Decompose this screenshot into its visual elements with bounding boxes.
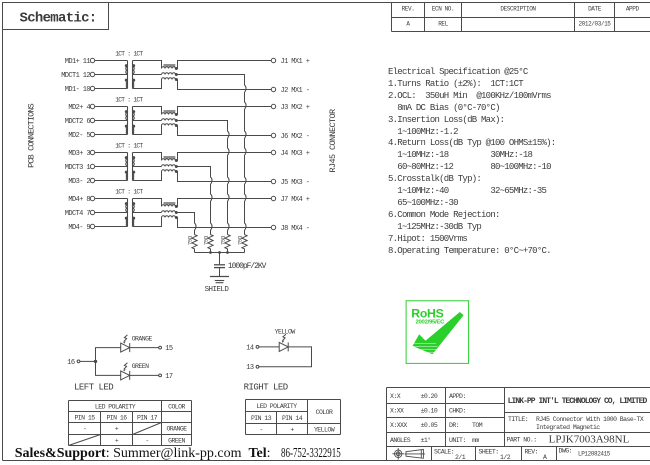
svg-text:MDCT3 1: MDCT3 1 — [65, 164, 91, 172]
svg-text:A: A — [406, 21, 410, 28]
svg-text:PIN 16: PIN 16 — [106, 415, 127, 422]
svg-text:RJ45 Connector With 1000 Base-: RJ45 Connector With 1000 Base-TX — [536, 416, 644, 423]
svg-text:±1°: ±1° — [421, 436, 431, 444]
svg-text:2002/95/EC: 2002/95/EC — [416, 320, 446, 326]
svg-text:15: 15 — [165, 345, 173, 353]
svg-text:1000pF/2KV: 1000pF/2KV — [228, 262, 267, 271]
svg-text:PART NO.:: PART NO.: — [507, 437, 537, 444]
wire T3 secondary bottom to choke L3 — [133, 172, 162, 181]
wire junction to green LED — [96, 361, 121, 375]
title box Schematic — [3, 3, 109, 30]
pin 17 — [159, 373, 173, 381]
svg-text:A: A — [543, 454, 547, 461]
svg-text:1/2: 1/2 — [500, 454, 511, 461]
node cap junction — [218, 251, 221, 254]
svg-text:YELLOW: YELLOW — [275, 328, 296, 335]
svg-text:PIN 17: PIN 17 — [137, 415, 158, 422]
LED D1 ORANGE — [121, 335, 153, 352]
svg-text:MD4- 9: MD4- 9 — [68, 224, 90, 232]
wire T3 secondary top to choke L3 — [133, 153, 162, 161]
svg-text:2012/03/15: 2012/03/15 — [578, 21, 611, 28]
svg-text:COLOR: COLOR — [316, 409, 333, 416]
svg-text:ANGLES: ANGLES — [390, 437, 411, 444]
wire T3 secondary center tap to choke L3 — [133, 166, 162, 168]
resistor R1 75 ohm — [236, 235, 247, 253]
svg-text:GREEN: GREEN — [168, 438, 185, 445]
svg-text:SCALE:: SCALE: — [434, 449, 454, 456]
svg-text:±0.05: ±0.05 — [421, 422, 438, 429]
svg-text:75Ω: 75Ω — [186, 235, 193, 245]
wire choke L2 to J6 — [176, 126, 271, 136]
revision table — [392, 3, 650, 32]
wire T1 secondary center tap to choke L1 — [133, 74, 162, 76]
svg-text:J8 MX4 -: J8 MX4 - — [281, 225, 310, 233]
svg-text:ECN NO.: ECN NO. — [432, 6, 454, 13]
wire choke L4 to J7 — [176, 199, 271, 207]
svg-text:MD1- 10: MD1- 10 — [65, 86, 91, 94]
svg-text:J3 MX2 +: J3 MX2 + — [281, 104, 310, 112]
capacitor C1 1000pF/2KV — [214, 253, 267, 277]
wire choke L1 to J2 — [176, 80, 271, 90]
svg-text:MD2+ 4: MD2+ 4 — [68, 104, 90, 112]
svg-text:PIN 14: PIN 14 — [282, 415, 303, 422]
ground SHIELD — [205, 277, 230, 295]
svg-text:COLOR: COLOR — [168, 404, 185, 411]
svg-text:+: + — [115, 438, 119, 445]
wire T4 secondary top to choke L4 — [133, 199, 162, 207]
third-angle projection symbol — [392, 448, 425, 460]
pin 12 (MDCT1) — [61, 72, 95, 80]
pin 3 (MD3+) — [68, 150, 94, 158]
svg-text:-: - — [145, 438, 148, 445]
svg-text:PIN 15: PIN 15 — [74, 415, 95, 422]
svg-text:14: 14 — [246, 344, 254, 352]
pin 14 (right LED anode) — [246, 344, 259, 352]
wire T1 secondary bottom to choke L1 — [133, 80, 162, 89]
wire MD1+ to T1 — [95, 60, 128, 62]
pin 13 — [246, 364, 259, 372]
wire common rail (resistor commons) — [195, 251, 245, 254]
svg-text:LP12082415: LP12082415 — [578, 451, 611, 458]
svg-text:+: + — [115, 426, 119, 433]
svg-text:75Ω: 75Ω — [202, 235, 209, 245]
node LED junction — [94, 360, 97, 363]
RoHS logo — [406, 301, 469, 364]
wire T1 secondary top to choke L1 — [133, 61, 162, 69]
transformer T2 (1CT:1CT) — [125, 107, 135, 135]
left LED polarity table — [69, 401, 192, 446]
common-mode choke L4 — [162, 202, 178, 219]
wire MD2- to T2 — [95, 134, 128, 136]
svg-text:2/1: 2/1 — [455, 454, 466, 461]
pin 16 (left LED common) — [67, 359, 80, 367]
svg-text:J7 MX4 +: J7 MX4 + — [281, 196, 310, 204]
pin 1 (MDCT3) — [65, 164, 95, 172]
svg-text:SHEET:: SHEET: — [479, 449, 499, 456]
svg-text:LEFT LED: LEFT LED — [74, 383, 113, 393]
wire MDCT2 to T2 center tap — [95, 120, 128, 122]
svg-text:1CT : 1CT: 1CT : 1CT — [115, 189, 143, 196]
svg-text:MD4+ 8: MD4+ 8 — [68, 196, 90, 204]
wire pin16 to junction — [80, 360, 96, 362]
svg-text:75Ω: 75Ω — [236, 235, 243, 245]
wire T2 secondary center tap to choke L2 — [133, 120, 162, 122]
pin 9 (MD4-) — [68, 224, 94, 232]
svg-text:17: 17 — [165, 373, 173, 381]
wire choke L2 center-tap bus to R2 (with crossover hops) — [176, 121, 229, 235]
svg-text:±0.10: ±0.10 — [421, 408, 438, 415]
svg-text:13: 13 — [246, 364, 254, 372]
svg-text:RJ45 CONNECTOR: RJ45 CONNECTOR — [328, 109, 338, 173]
pin 11 (MD1+) — [65, 58, 95, 66]
svg-text:TITLE:: TITLE: — [508, 416, 528, 423]
wire MD3- to T3 — [95, 180, 128, 182]
svg-text:DWG:: DWG: — [559, 448, 572, 455]
pin J7 (MX4 +) — [271, 196, 309, 204]
svg-text:Integrated Magnetic: Integrated Magnetic — [536, 424, 600, 431]
wire LED D3 to pin 13 — [259, 347, 312, 367]
pin 4 (MD2+) — [68, 104, 94, 112]
svg-text:APPD: APPD — [626, 6, 640, 13]
right LED polarity table — [246, 400, 341, 435]
svg-text:X:XX: X:XX — [390, 408, 404, 415]
wire T4 secondary bottom to choke L4 — [133, 218, 162, 227]
wire MD4+ to T4 — [95, 198, 128, 200]
pin J5 (MX3 -) — [271, 179, 309, 187]
svg-text:J6 MX2 -: J6 MX2 - — [281, 133, 310, 141]
wire pin14 to yellow LED — [259, 346, 279, 348]
svg-text:UNIT:: UNIT: — [449, 437, 466, 444]
wire choke L4 center-tap bus to R4 (with crossover hops) — [176, 213, 196, 235]
svg-text:PCB CONNECTIONS: PCB CONNECTIONS — [27, 103, 37, 168]
wire MDCT4 to T4 center tap — [95, 212, 128, 214]
svg-text:J5 MX3 -: J5 MX3 - — [281, 179, 310, 187]
svg-text:ORANGE: ORANGE — [166, 426, 187, 433]
svg-text:ORANGE: ORANGE — [132, 335, 153, 342]
svg-text:REV:: REV: — [525, 449, 538, 456]
svg-text:MDCT2 6: MDCT2 6 — [65, 118, 91, 126]
svg-text:REV.: REV. — [402, 6, 415, 13]
resistor R4 75 ohm — [186, 235, 197, 253]
wire T2 secondary top to choke L2 — [133, 107, 162, 115]
svg-text:MD2- 5: MD2- 5 — [68, 132, 90, 140]
svg-text:CHKD:: CHKD: — [449, 408, 466, 415]
svg-text:J4 MX3 +: J4 MX3 + — [281, 150, 310, 158]
resistor R3 75 ohm — [202, 235, 213, 253]
wire T4 secondary center tap to choke L4 — [133, 212, 162, 214]
pin 5 (MD2-) — [68, 132, 94, 140]
svg-text:Schematic:: Schematic: — [20, 11, 97, 27]
svg-text:MD3- 2: MD3- 2 — [68, 178, 90, 186]
svg-text:REL: REL — [438, 21, 448, 28]
sales contact line — [15, 446, 375, 462]
svg-text:-: - — [259, 427, 262, 434]
wire MDCT1 to T1 center tap — [95, 74, 128, 76]
svg-text:J2 MX1 -: J2 MX1 - — [281, 87, 310, 95]
svg-text:+: + — [290, 427, 294, 434]
wire MD2+ to T2 — [95, 106, 128, 108]
svg-text:75Ω: 75Ω — [219, 235, 226, 245]
svg-text:1CT : 1CT: 1CT : 1CT — [115, 51, 143, 58]
resistor R2 75 ohm — [219, 235, 230, 253]
wire MD4- to T4 — [95, 226, 128, 228]
wire MDCT3 to T3 center tap — [95, 166, 128, 168]
svg-text:LED POLARITY: LED POLARITY — [95, 404, 136, 411]
svg-text:LPJK7003A98NL: LPJK7003A98NL — [549, 434, 630, 446]
svg-text:DATE: DATE — [588, 6, 602, 13]
transformer T4 (1CT:1CT) — [125, 199, 135, 227]
svg-text:16: 16 — [67, 359, 75, 367]
wire LED D1 to pin 15 — [130, 347, 159, 349]
svg-text:-: - — [83, 426, 86, 433]
wire MD1- to T1 — [95, 88, 128, 90]
common-mode choke L3 — [162, 156, 178, 173]
title block — [387, 388, 650, 462]
pin J2 (MX1 -) — [271, 87, 309, 95]
svg-text:APPD:: APPD: — [449, 393, 466, 400]
svg-text:1CT : 1CT: 1CT : 1CT — [115, 97, 143, 104]
svg-text:LED POLARITY: LED POLARITY — [256, 403, 297, 410]
svg-text:RIGHT LED: RIGHT LED — [244, 383, 288, 393]
wire choke L3 to J4 — [176, 153, 271, 161]
svg-text:RoHS: RoHS — [411, 307, 443, 321]
svg-text:MD3+ 3: MD3+ 3 — [68, 150, 90, 158]
pin J6 (MX2 -) — [271, 133, 309, 141]
pin 10 (MD1-) — [65, 86, 95, 94]
LED D2 GREEN — [121, 363, 149, 380]
wire junction to orange LED — [96, 348, 121, 362]
wire LED D2 to pin 17 — [130, 374, 159, 376]
LED D3 YELLOW — [275, 328, 296, 351]
svg-text:TOM: TOM — [472, 422, 483, 429]
svg-text:GREEN: GREEN — [132, 363, 149, 370]
wire choke L3 center-tap bus to R3 (with crossover hops) — [176, 167, 212, 235]
pin J4 (MX3 +) — [271, 150, 309, 158]
pin J1 (MX1 +) — [271, 58, 309, 66]
wire choke L1 to J1 — [176, 61, 271, 69]
common-mode choke L2 — [162, 110, 178, 127]
svg-text:MD1+ 11: MD1+ 11 — [65, 58, 91, 66]
svg-text:±0.20: ±0.20 — [421, 393, 438, 400]
wire MD3+ to T3 — [95, 152, 128, 154]
electrical specification text — [388, 67, 555, 258]
pin 8 (MD4+) — [68, 196, 94, 204]
pin 6 (MDCT2) — [65, 118, 95, 126]
svg-text:J1 MX1 +: J1 MX1 + — [281, 58, 310, 66]
wire T2 secondary bottom to choke L2 — [133, 126, 162, 135]
common-mode choke L1 — [162, 64, 178, 81]
pin 15 — [159, 345, 173, 353]
wire choke L3 to J5 — [176, 172, 271, 182]
svg-text:mm: mm — [472, 437, 479, 444]
svg-text:MDCT1 12: MDCT1 12 — [61, 72, 90, 80]
wire choke L1 center-tap bus to R1 (with crossover hops) — [176, 75, 246, 235]
wire choke L2 to J3 — [176, 107, 271, 115]
svg-text:X:XXX: X:XXX — [390, 422, 407, 429]
svg-text:PIN 13: PIN 13 — [251, 415, 272, 422]
transformer T1 (1CT:1CT) — [125, 61, 135, 89]
svg-text:SHIELD: SHIELD — [205, 286, 230, 294]
svg-text:YELLOW: YELLOW — [314, 427, 335, 434]
svg-text:DESCRIPTION: DESCRIPTION — [500, 6, 536, 13]
wire choke L4 to J8 — [176, 218, 271, 228]
pin J3 (MX2 +) — [271, 104, 309, 112]
pin 2 (MD3-) — [68, 178, 94, 186]
svg-text:DR:: DR: — [449, 422, 459, 429]
pin 7 (MDCT4) — [65, 210, 95, 218]
svg-text:X:X: X:X — [390, 393, 401, 400]
svg-text:MDCT4 7: MDCT4 7 — [65, 210, 91, 218]
transformer T3 (1CT:1CT) — [125, 153, 135, 181]
svg-text:1CT : 1CT: 1CT : 1CT — [115, 143, 143, 150]
pin J8 (MX4 -) — [271, 225, 309, 233]
svg-text:LINK-PP INT'L TECHNOLOGY CO, L: LINK-PP INT'L TECHNOLOGY CO, LIMITED — [508, 397, 648, 406]
